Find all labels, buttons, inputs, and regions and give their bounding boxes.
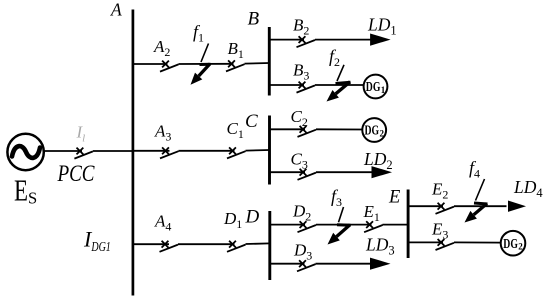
load arrow LD2 [372, 166, 393, 178]
wire switch C1 to bus C [246, 149, 270, 152]
svg-text:B1: B1 [228, 39, 244, 61]
svg-text:A: A [110, 0, 122, 20]
load arrow LD1 [370, 34, 391, 46]
svg-text:B3: B3 [293, 61, 309, 83]
svg-text:f4: f4 [469, 158, 480, 181]
fault f2: lightning arrow [327, 65, 351, 102]
switch C2: x-contact and blade [298, 126, 317, 137]
svg-text:DG: DG [366, 79, 381, 94]
bus D [268, 211, 271, 280]
load arrow LD3 [370, 258, 391, 270]
wire switch E3 to DG2 [454, 241, 501, 243]
wire bus B to switch B2 [269, 39, 304, 41]
svg-text:C2: C2 [291, 107, 308, 129]
wire PCC switch to bus A [93, 150, 133, 152]
fault f1: lightning arrow [191, 44, 211, 85]
svg-text:LD2: LD2 [363, 149, 393, 172]
svg-text:D: D [245, 207, 260, 228]
svg-text:A4: A4 [154, 212, 171, 234]
svg-text:2: 2 [518, 242, 523, 252]
wire bus E to switch E2 [408, 205, 443, 207]
svg-text:f2: f2 [329, 46, 340, 69]
svg-text:f3: f3 [331, 186, 342, 209]
bus C [268, 116, 271, 185]
svg-text:1: 1 [381, 85, 386, 95]
svg-text:f1: f1 [193, 22, 204, 45]
switch E2: x-contact and blade [436, 203, 455, 214]
fault f3: lightning arrow [328, 207, 351, 245]
DG source DG2 on bus C: circle with label [362, 118, 386, 142]
DG source DG2 on bus E: circle with label [501, 231, 526, 256]
switch E1: x-contact and blade [364, 221, 383, 232]
switch A4: x-contact and blade [160, 241, 179, 252]
wire bus B to switch B3 [269, 84, 304, 86]
wire bus C to switch C2 [270, 128, 306, 130]
svg-text:LD3: LD3 [365, 235, 395, 258]
svg-text:D2: D2 [292, 202, 311, 224]
svg-text:E1: E1 [363, 202, 380, 224]
wire switch E1 to bus E [383, 224, 409, 226]
svg-text:LD1: LD1 [367, 15, 397, 38]
switch A3: x-contact and blade [160, 147, 179, 158]
switch B1: x-contact and blade [226, 60, 245, 71]
switch A2: x-contact and blade [160, 61, 179, 72]
wire switch C2 to DG2 [316, 128, 363, 130]
switch D2: x-contact and blade [298, 221, 317, 232]
svg-text:E2: E2 [431, 180, 448, 202]
wire switch B3 to DG1 [315, 84, 364, 86]
DG source DG1: circle with label [364, 75, 388, 99]
wire bus C to switch C3 [270, 171, 306, 173]
wire bus E to switch E3 [408, 241, 443, 243]
switch E3: x-contact and blade [436, 239, 455, 250]
svg-text:B: B [248, 8, 260, 29]
svg-text:A3: A3 [154, 122, 171, 144]
svg-text:DG: DG [503, 236, 518, 251]
svg-text:E: E [388, 188, 400, 208]
svg-text:C3: C3 [291, 150, 308, 172]
svg-text:C: C [245, 111, 258, 132]
wire switch B1 to bus B [245, 62, 270, 65]
wire switch D1 to bus D [246, 242, 270, 245]
switch D3: x-contact and blade [297, 260, 316, 271]
svg-text:Il: Il [76, 123, 86, 145]
wire switch A4 to switch D1 [178, 243, 235, 245]
svg-text:IDG1: IDG1 [83, 227, 111, 256]
svg-text:A2: A2 [153, 37, 170, 59]
wire bus A to switch A3 [133, 150, 170, 152]
svg-text:B2: B2 [293, 16, 309, 38]
wire switch E2 to load LD4 [454, 205, 507, 207]
svg-text:D3: D3 [293, 241, 312, 263]
load arrow LD4 [508, 201, 526, 212]
svg-text:E3: E3 [431, 220, 448, 242]
svg-text:PCC: PCC [57, 161, 95, 186]
wire bus D to switch D3 [270, 263, 305, 265]
wire switch A2 to switch B1 [179, 63, 234, 65]
switch D1: x-contact and blade [227, 241, 246, 252]
switch B2: x-contact and blade [297, 36, 316, 47]
wire switch D3 to load LD3 [316, 263, 372, 265]
bus A [132, 10, 135, 296]
wire switch D2 to switch E1 [316, 224, 372, 226]
switch C3: x-contact and blade [298, 169, 317, 180]
switch B3: x-contact and blade [297, 82, 316, 93]
switch C1: x-contact and blade [227, 147, 246, 158]
svg-text:DG: DG [365, 123, 380, 138]
wire switch C3 to load LD2 [316, 171, 373, 173]
svg-text:ES: ES [14, 173, 37, 208]
wire bus D to switch D2 [270, 224, 305, 226]
AC grid source ES: circle with sine [7, 134, 43, 170]
bus B [268, 27, 271, 96]
svg-text:D1: D1 [223, 209, 242, 231]
svg-text:C1: C1 [227, 119, 244, 141]
wire switch B2 to load LD1 [315, 39, 371, 41]
wire source to PCC switch [44, 150, 82, 152]
wire bus A to switch A2 [133, 63, 168, 65]
fault f4: lightning arrow [465, 179, 488, 223]
svg-text:2: 2 [380, 128, 385, 138]
wire switch A3 to switch C1 [179, 150, 235, 152]
svg-text:LD4: LD4 [513, 177, 543, 200]
bus E [407, 190, 410, 259]
switch PCC breaker: x-contact and blade [74, 148, 93, 159]
wire bus A to switch A4 [133, 243, 169, 245]
